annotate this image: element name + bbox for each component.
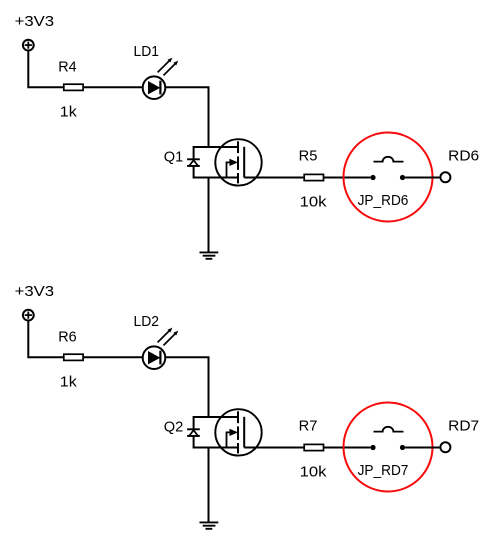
jumper JP_RD7 — [370, 427, 405, 450]
resistor R7 — [304, 444, 323, 450]
wire power to R4 — [28, 52, 64, 88]
power symbol +3V3 (top) — [23, 40, 34, 51]
transistor Q2 — [187, 409, 262, 455]
svg-text:Q1: Q1 — [164, 148, 184, 165]
wire power to R6 — [28, 322, 64, 358]
ground (top) — [200, 252, 219, 258]
wire LD1 to Q1 drain — [165, 87, 208, 147]
svg-text:1k: 1k — [60, 103, 78, 120]
svg-text:10k: 10k — [300, 193, 327, 210]
wire JP_RD6 to pin RD6 — [405, 177, 439, 179]
svg-text:1k: 1k — [60, 373, 78, 390]
power symbol +3V3 (bottom) — [23, 310, 34, 321]
annotation red circle (JP_RD7) — [344, 403, 433, 492]
LED LD1 — [143, 58, 179, 99]
svg-text:JP_RD6: JP_RD6 — [358, 192, 409, 209]
svg-text:R7: R7 — [299, 418, 318, 435]
wire R6 to LD2 — [83, 356, 143, 358]
wire Q1 source to ground — [208, 178, 210, 253]
wire R5 to JP_RD6 — [324, 177, 371, 179]
wire R4 to LD1 — [83, 86, 143, 88]
jumper JP_RD6 — [370, 157, 405, 180]
resistor R6 — [64, 354, 83, 360]
svg-text:RD6: RD6 — [448, 147, 479, 164]
LED LD2 — [143, 328, 179, 369]
annotation red circle (JP_RD6) — [344, 133, 433, 222]
svg-text:RD7: RD7 — [448, 417, 479, 434]
svg-text:LD2: LD2 — [134, 313, 160, 330]
wire Q2 gate to R7 — [244, 447, 304, 449]
pin RD6 — [440, 172, 450, 182]
svg-text:R4: R4 — [58, 59, 76, 76]
wire R7 to JP_RD7 — [324, 447, 371, 449]
svg-text:+3V3: +3V3 — [15, 283, 55, 300]
wire JP_RD7 to pin RD7 — [405, 447, 439, 449]
svg-text:LD1: LD1 — [134, 43, 160, 60]
svg-text:Q2: Q2 — [164, 418, 184, 435]
svg-text:R5: R5 — [299, 148, 318, 165]
wire LD2 to Q2 drain — [165, 357, 208, 417]
wire Q2 source to ground — [208, 448, 210, 523]
transistor Q1 — [187, 139, 262, 185]
resistor R4 — [64, 84, 83, 90]
pin RD7 — [440, 442, 450, 452]
ground (bottom) — [200, 522, 219, 528]
svg-text:R6: R6 — [58, 329, 76, 346]
svg-text:10k: 10k — [300, 463, 327, 480]
wire Q1 gate to R5 — [244, 177, 304, 179]
resistor R5 — [304, 174, 323, 180]
svg-text:+3V3: +3V3 — [15, 13, 55, 30]
svg-text:JP_RD7: JP_RD7 — [358, 462, 409, 479]
